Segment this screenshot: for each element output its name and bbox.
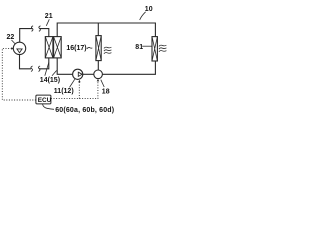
wire middle exchanger to valve 18	[97, 61, 99, 70]
air flow waves (radiator 81)	[159, 45, 167, 52]
heat exchanger 16 (left core)	[45, 37, 53, 58]
wire pump 11 to valve 18	[83, 73, 94, 75]
pump 11(12)	[73, 69, 83, 79]
svg-text:22: 22	[7, 34, 15, 41]
wire mid branch from bus to exchanger 16(17) label target	[97, 23, 99, 36]
leader 81	[142, 45, 152, 47]
radiator 81	[152, 37, 157, 61]
control line ECU to pump 22 (dotted)	[2, 48, 36, 100]
svg-text:16(17): 16(17)	[66, 45, 86, 52]
leader 11(12)	[70, 79, 75, 87]
svg-text:18: 18	[102, 89, 110, 96]
pipe break symbol (bottom pair)	[31, 66, 33, 72]
wire pump 22 bottom loop	[20, 55, 32, 69]
pump 22	[13, 42, 25, 54]
wire valve 18 to radiator 81	[102, 61, 155, 74]
leader 10	[140, 12, 146, 20]
svg-text:14(15): 14(15)	[40, 77, 60, 84]
wire top-left resumes after break	[39, 29, 49, 37]
arrowhead at valve 18	[97, 79, 100, 82]
svg-text:11(12): 11(12)	[54, 88, 74, 95]
pipe break symbol (top pair)	[31, 26, 33, 32]
svg-text:60(60a, 60b, 60d): 60(60a, 60b, 60d)	[55, 107, 114, 114]
ECU box	[36, 95, 52, 104]
svg-text:ECU: ECU	[38, 97, 52, 104]
leader 18	[101, 80, 104, 87]
svg-text:10: 10	[145, 6, 153, 13]
arrowhead at pump 22	[11, 47, 14, 50]
air flow waves (middle exchanger)	[104, 47, 112, 54]
wire exchanger bottom to pump 11	[57, 58, 72, 74]
svg-text:81: 81	[135, 44, 143, 51]
valve 18	[94, 70, 103, 79]
leader 21	[46, 19, 49, 26]
leader 16(17) squiggle	[87, 47, 93, 48]
wire exchanger right outlet up to top bus	[57, 23, 155, 37]
wire top-left horizontal (pump 22 to exchanger 16 left inlet)	[20, 29, 33, 43]
arrowhead at pump 11	[78, 80, 80, 83]
control line ECU to pump 11 and valve 18 (dotted)	[51, 81, 98, 99]
leader 60	[43, 104, 55, 109]
svg-text:21: 21	[45, 13, 53, 20]
heat exchanger (middle, labelled 16(17))	[96, 36, 101, 61]
leaders 14(15)	[45, 63, 57, 76]
leader 22	[12, 40, 16, 44]
heat exchanger 17 (right core)	[54, 37, 62, 58]
wire bottom-left resumes after break	[39, 58, 49, 69]
